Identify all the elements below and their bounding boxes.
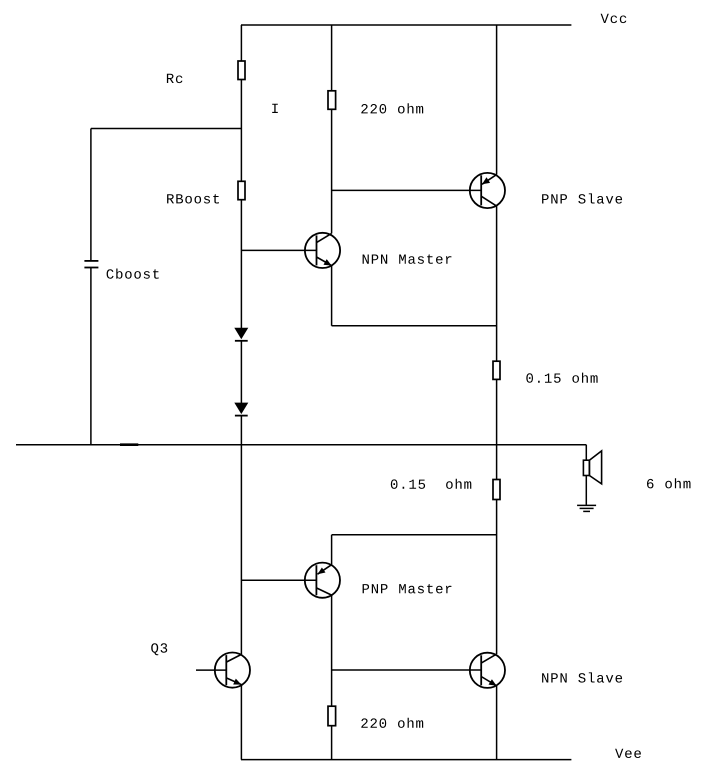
wire Rc bottom to RBoost top	[240, 80, 242, 182]
label 6 ohm	[647, 478, 691, 488]
label 220 ohm upper	[361, 103, 423, 113]
label NPN Slave	[542, 672, 622, 682]
wire output rail to lower 0.15 ohm	[496, 445, 498, 480]
wire Vcc to PNP Slave emitter	[496, 25, 498, 175]
wire D1 to D2	[240, 341, 242, 403]
diode D1	[234, 328, 248, 340]
wire NPN Master emitter to PNP Slave collector net	[332, 325, 497, 327]
transistor Q5 NPN Slave	[470, 653, 505, 688]
wire PNP Slave collector down to 0.15 ohm resistor	[496, 206, 498, 361]
wire NPN Master emitter down	[331, 266, 333, 326]
label 0.15 ohm lower	[391, 479, 472, 489]
wire PNP Master base horizontal	[241, 579, 316, 581]
wire overlap segment on output rail	[120, 443, 138, 446]
resistor 220 ohm upper	[328, 91, 336, 110]
label Vcc	[601, 14, 627, 23]
wire PNP Master collector down to 220 ohm lower (junction NPN Slave base y=670)	[331, 595, 333, 706]
resistor 0.15 ohm lower	[493, 480, 500, 500]
transistor Q1 NPN Master	[241, 233, 340, 268]
label Vee	[615, 749, 641, 758]
wire NPN Slave base horizontal	[332, 669, 482, 671]
label Q3	[151, 643, 167, 655]
resistor 0.15 ohm upper	[493, 361, 500, 379]
label Rc	[167, 74, 183, 83]
wire 220 ohm lower to Vee	[331, 726, 333, 760]
resistor 220 ohm lower	[328, 706, 336, 726]
label 0.15 ohm upper	[526, 373, 597, 383]
transistor Q3	[196, 653, 250, 688]
wire Q3 emitter to Vee rail	[240, 685, 242, 760]
label PNP Slave	[542, 193, 622, 203]
wire Vcc to Rc top	[240, 25, 242, 61]
wire lower 0.15 ohm to NPN Slave collector (junction at y=534.8)	[496, 500, 498, 655]
transistor Q2 PNP Slave	[470, 173, 505, 208]
label RBoost	[167, 194, 219, 203]
label PNP Master	[363, 584, 452, 593]
wire PNP Slave base horizontal	[332, 189, 482, 191]
wire Vee bottom rail	[241, 759, 571, 761]
ground	[577, 505, 596, 511]
wire PNP Master emitter up	[331, 535, 333, 565]
resistor RBoost	[238, 181, 245, 199]
resistor Rc	[238, 61, 245, 80]
wire Vcc top rail	[241, 24, 571, 26]
wire output rail (node OUT)	[16, 444, 586, 446]
wire D2 down through output rail to Q3 collector	[240, 416, 242, 655]
wire boost branch left vertical to Cboost	[90, 129, 92, 261]
wire boost branch horizontal	[91, 128, 242, 130]
label NPN Master	[363, 254, 452, 263]
transistor Q4 PNP Master	[305, 563, 340, 598]
diode D2	[234, 403, 248, 415]
wire Cboost bottom to output rail	[90, 268, 92, 445]
wire Vcc to 220ohm top resistor	[331, 25, 333, 91]
wire 0.15 ohm to output rail	[496, 379, 498, 444]
capacitor Cboost	[84, 260, 98, 262]
label Cboost	[107, 269, 159, 279]
wire RBoost bottom to diode D1 (junction with NPN Master base at y=250)	[240, 200, 242, 329]
label 220 ohm lower	[361, 718, 423, 728]
speaker LS1	[583, 445, 601, 505]
wire NPN Slave emitter to Vee	[496, 686, 498, 760]
label I	[272, 104, 278, 113]
wire PNP Master emitter horizontal to 0.15ohm net	[332, 534, 497, 536]
wire 220ohm to NPN Master collector (junction to PNP Slave base at y=190.4)	[331, 109, 333, 233]
